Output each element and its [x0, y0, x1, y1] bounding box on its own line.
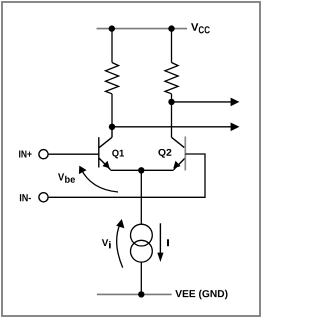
- Q1 label: [112, 150, 124, 159]
- tail wire upper: [140, 170, 142, 224]
- transistor Q2: [172, 137, 185, 170]
- IN- wire: [48, 154, 205, 197]
- node dot right output: [168, 99, 174, 105]
- IN+ wire: [48, 153, 98, 155]
- node dot VEE: [138, 291, 144, 297]
- IN+ label: [19, 151, 32, 158]
- VCC label: [191, 23, 198, 30]
- Vbe arrowhead: [79, 166, 87, 175]
- Q2 emitter arrowhead: [173, 161, 180, 169]
- IN- label: [20, 194, 31, 201]
- node dot emitters: [138, 167, 144, 173]
- current source I1: [131, 224, 153, 246]
- output wire upper: [172, 101, 232, 103]
- tail wire lower: [140, 262, 142, 294]
- VEE rail: [97, 293, 172, 295]
- wire right collector upper: [171, 29, 173, 63]
- Vbe label: [58, 173, 64, 180]
- output arrowhead lower: [231, 123, 240, 132]
- output wire lower: [112, 126, 231, 128]
- node dot top-left: [109, 25, 115, 31]
- I label: [167, 239, 169, 246]
- emitter wire: [111, 169, 174, 171]
- wire left collector lower: [111, 94, 113, 127]
- VCC rail: [97, 28, 188, 30]
- Q1 emitter arrowhead: [102, 161, 109, 169]
- IN+ terminal: [39, 150, 48, 159]
- resistor R2: [165, 63, 178, 94]
- node dot left output: [109, 124, 115, 130]
- resistor R1: [106, 63, 119, 94]
- transistor Q1: [99, 127, 112, 170]
- IN- terminal: [39, 193, 48, 202]
- Vi label: [102, 239, 109, 246]
- Q2 label: [158, 149, 171, 158]
- Vi arrowhead: [116, 219, 124, 228]
- Vbe arc: [81, 169, 118, 193]
- Vi arc: [117, 225, 123, 268]
- border frame: [2, 2, 260, 316]
- VEE label: [175, 290, 227, 299]
- output arrowhead upper: [231, 98, 240, 107]
- wire left collector upper: [111, 29, 113, 63]
- wire right collector lower: [171, 94, 173, 138]
- current arrow I: [159, 223, 161, 253]
- node dot VCC: [168, 25, 174, 31]
